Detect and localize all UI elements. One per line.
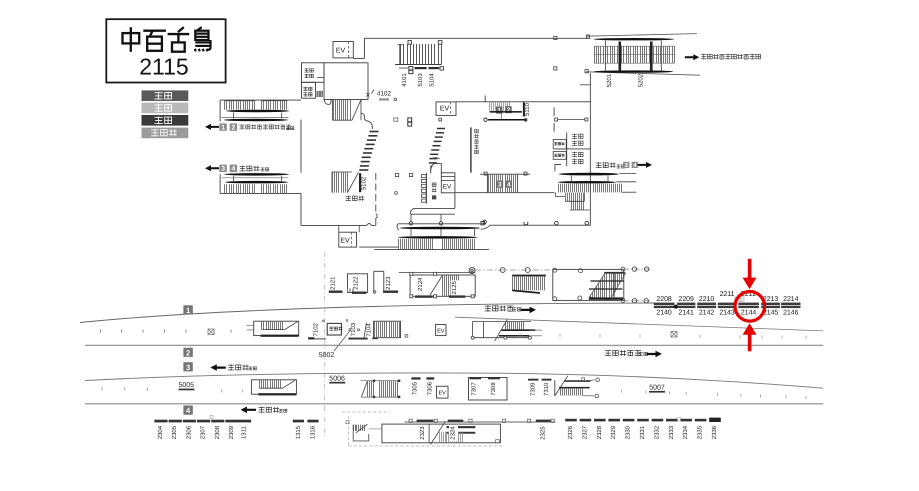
svg-text:5103: 5103 bbox=[417, 73, 424, 87]
boards 7309 7310 bbox=[528, 379, 539, 381]
west office wall dashed bbox=[375, 173, 377, 214]
svg-text:2309: 2309 bbox=[228, 425, 235, 439]
wiggle passage line bbox=[361, 113, 373, 129]
accessible toilet boxes bbox=[553, 139, 566, 149]
svg-text:EV: EV bbox=[340, 238, 350, 245]
platform3 stair west bbox=[251, 380, 296, 394]
ticket gate block bbox=[316, 91, 325, 97]
pillar dots center bbox=[394, 98, 397, 101]
stair 5102 with lighted sign bbox=[331, 172, 333, 193]
svg-text:EV: EV bbox=[437, 329, 445, 335]
svg-text:1316: 1316 bbox=[309, 425, 316, 439]
svg-text:2329: 2329 bbox=[610, 425, 617, 439]
legend 普通 bbox=[142, 103, 189, 114]
station title box 中百舌鳥 2115 bbox=[106, 19, 225, 82]
svg-text:1: 1 bbox=[221, 125, 225, 132]
label 駅務室 west bbox=[346, 196, 352, 202]
svg-text:2122: 2122 bbox=[353, 276, 360, 290]
svg-text:5201: 5201 bbox=[606, 73, 613, 87]
svg-text:5110: 5110 bbox=[524, 102, 531, 116]
restroom 女子手洗 east bbox=[566, 133, 568, 167]
svg-text:2123: 2123 bbox=[385, 276, 392, 290]
svg-text:2209: 2209 bbox=[679, 296, 694, 303]
svg-text:2324: 2324 bbox=[450, 426, 457, 440]
svg-text:2121: 2121 bbox=[330, 276, 337, 290]
platform1 stair west bbox=[247, 325, 255, 327]
platform1 stair east bbox=[374, 321, 401, 338]
double square symbol bbox=[409, 67, 413, 70]
svg-text:EV: EV bbox=[438, 391, 446, 397]
east escalator bank bbox=[558, 173, 619, 176]
east rooms partition bbox=[580, 84, 590, 86]
svg-text:7308: 7308 bbox=[490, 382, 497, 396]
platform3 stair east bbox=[554, 380, 556, 396]
svg-text:2308: 2308 bbox=[214, 425, 221, 439]
concourse wall west bbox=[300, 120, 302, 173]
svg-text:3: 3 bbox=[186, 363, 190, 372]
svg-text:2214: 2214 bbox=[783, 296, 798, 303]
svg-text:2144: 2144 bbox=[741, 310, 756, 317]
svg-text:2325: 2325 bbox=[540, 426, 547, 440]
svg-text:2307: 2307 bbox=[200, 425, 207, 439]
office 駅務室 center with EV bbox=[431, 158, 440, 160]
ad boards 2208-2214 / 2140-2146 bbox=[654, 303, 675, 305]
label ← なんば方面 row3 bbox=[210, 364, 226, 371]
main north stair 4101/5103/5104 bbox=[398, 44, 404, 46]
dark boards on rail bbox=[417, 420, 434, 422]
svg-text:2330: 2330 bbox=[625, 425, 632, 439]
svg-text:2208: 2208 bbox=[656, 296, 671, 303]
map symbol platform1 left bbox=[208, 329, 214, 335]
svg-text:3: 3 bbox=[221, 166, 225, 173]
platform 2 badge bbox=[183, 348, 192, 357]
legend 駅名板 bbox=[142, 128, 189, 139]
stair below NW room bbox=[332, 100, 334, 121]
elevator EV east-center bbox=[436, 102, 456, 116]
svg-text:2210: 2210 bbox=[699, 296, 714, 303]
svg-text:2333: 2333 bbox=[668, 425, 675, 439]
platform 1 edge curve bbox=[80, 303, 654, 323]
grand stair concourse south bbox=[398, 223, 486, 225]
svg-text:4: 4 bbox=[507, 182, 511, 189]
svg-text:EV: EV bbox=[440, 106, 450, 113]
platform 1 south edge slant bbox=[455, 317, 823, 331]
svg-text:2125: 2125 bbox=[451, 280, 458, 294]
svg-text:1: 1 bbox=[497, 107, 501, 114]
svg-text:7307: 7307 bbox=[471, 382, 478, 396]
svg-text:2336: 2336 bbox=[711, 425, 718, 439]
svg-text:2: 2 bbox=[507, 107, 511, 114]
hall line south-center bbox=[455, 192, 555, 194]
svg-text:2140: 2140 bbox=[656, 310, 671, 317]
svg-text:4102: 4102 bbox=[377, 90, 392, 97]
svg-text:4: 4 bbox=[232, 166, 236, 173]
label なんば方面 3 4 → bbox=[596, 162, 602, 168]
svg-text:4101: 4101 bbox=[401, 73, 408, 87]
svg-text:5202: 5202 bbox=[637, 73, 644, 87]
svg-text:5102: 5102 bbox=[361, 176, 368, 190]
board 5103 bbox=[415, 67, 427, 69]
svg-text:7104: 7104 bbox=[366, 323, 373, 337]
booth 2122 bbox=[348, 274, 368, 293]
dash-dot elevator shaft line bbox=[324, 252, 326, 437]
restroom 女子手洗 northwest bbox=[302, 63, 325, 83]
svg-text:1311: 1311 bbox=[241, 425, 248, 439]
dash-dot connectors east bbox=[624, 268, 650, 270]
sign 4102 bbox=[367, 90, 375, 97]
concourse north wall bbox=[353, 57, 364, 59]
escalator ramp down to platform 1 bbox=[512, 275, 546, 277]
svg-text:EV: EV bbox=[443, 183, 452, 190]
svg-text:1315: 1315 bbox=[295, 425, 302, 439]
platform1 east structure bbox=[472, 321, 531, 323]
svg-text:2334: 2334 bbox=[682, 425, 689, 439]
platform 1 furniture ticks bbox=[100, 330, 102, 333]
platform3 ticks east bbox=[621, 390, 623, 393]
board 4101 plain bbox=[399, 67, 408, 69]
concourse east wall bbox=[589, 73, 591, 225]
svg-text:2328: 2328 bbox=[596, 425, 603, 439]
platform 1 badge bbox=[183, 305, 192, 314]
dashed enclosure under platform bbox=[342, 411, 390, 413]
svg-text:5002: 5002 bbox=[319, 352, 335, 359]
waiting room 待合室 bbox=[327, 323, 341, 335]
label ← 1 2 泉北高速線、高野山方面 bbox=[205, 124, 219, 130]
board 5104 bbox=[429, 67, 440, 69]
tiny mark between 2333 2334 bbox=[678, 418, 681, 421]
office label third glyph bbox=[432, 195, 436, 199]
stair enclosure east bbox=[553, 269, 624, 300]
label 高野山方面 → bbox=[485, 305, 491, 311]
boards 7307 7308 box bbox=[469, 378, 508, 401]
svg-text:2115: 2115 bbox=[139, 54, 188, 80]
svg-text:2331: 2331 bbox=[639, 425, 646, 439]
restroom 男子手洗 northwest bbox=[302, 82, 316, 98]
legend 電照 bbox=[142, 115, 189, 126]
long rail line with posts bbox=[405, 421, 556, 423]
stair box 2124/2125 bbox=[399, 272, 475, 274]
svg-text:2305: 2305 bbox=[171, 425, 178, 439]
svg-text:2211: 2211 bbox=[720, 291, 735, 298]
svg-text:7310: 7310 bbox=[543, 382, 550, 396]
red arrow down bbox=[743, 259, 757, 289]
walkway to subway Midosuji line bbox=[586, 34, 697, 37]
red highlight circle 2144 bbox=[735, 292, 765, 322]
svg-text:2: 2 bbox=[232, 125, 236, 132]
small stair SW bbox=[354, 425, 365, 431]
svg-text:3: 3 bbox=[498, 182, 502, 189]
boards 2304-1311 row bbox=[154, 420, 167, 423]
svg-text:EV: EV bbox=[336, 48, 346, 55]
platform3 escalator pair center bbox=[360, 380, 400, 382]
platform 3 badge bbox=[183, 362, 192, 371]
track line 2 bbox=[85, 344, 823, 346]
label 5002 with leader bbox=[334, 330, 350, 351]
boards 7305 7306 + EV bbox=[411, 377, 420, 379]
stair below east bank bbox=[566, 193, 584, 202]
svg-text:2124: 2124 bbox=[417, 277, 424, 291]
svg-text:2: 2 bbox=[186, 348, 190, 357]
svg-text:5007: 5007 bbox=[649, 385, 665, 392]
label ← なんば方面 row4 bbox=[241, 407, 257, 414]
svg-text:2323: 2323 bbox=[419, 426, 426, 440]
boards 2326-2336 row bbox=[565, 419, 577, 422]
west escalator bank lower (なんば direction) bbox=[224, 173, 290, 176]
passage box bbox=[373, 271, 375, 292]
svg-text:7305: 7305 bbox=[412, 381, 419, 395]
track line 4 bbox=[85, 403, 823, 405]
dashed escalator route NW bbox=[370, 131, 379, 133]
south wall east with pillars bbox=[490, 224, 591, 226]
platform3 ticks west bbox=[101, 387, 103, 390]
room below office bbox=[454, 193, 456, 209]
platform 4 badge bbox=[183, 406, 192, 415]
stair to platform 3·4 bbox=[484, 172, 487, 175]
svg-text:2142: 2142 bbox=[699, 310, 714, 317]
under-platform room 2323/2324 bbox=[382, 424, 501, 443]
label ← 3 4 なんば方面 bbox=[205, 165, 219, 171]
svg-text:7309: 7309 bbox=[530, 382, 537, 396]
dash-dot line upper bbox=[475, 269, 554, 271]
station room northwest bbox=[324, 63, 368, 100]
destination display 行先表示器 bbox=[470, 127, 472, 172]
stair to platform 1·2 with sign 5110 bbox=[456, 101, 590, 103]
svg-text:2304: 2304 bbox=[157, 425, 164, 439]
svg-text:7306: 7306 bbox=[427, 381, 434, 395]
legend 建植 bbox=[142, 90, 189, 101]
svg-text:7103: 7103 bbox=[350, 322, 357, 336]
boards 1315 1316 bbox=[293, 420, 304, 423]
platform 3/4 edge curve bbox=[85, 373, 823, 388]
platform1 right ticks bbox=[519, 334, 521, 337]
concourse south wall west bbox=[301, 224, 367, 226]
label → 地下鉄御堂筋線連絡通 bbox=[685, 54, 700, 60]
west escalator bank upper (to 泉北高速線 platform) bbox=[220, 99, 301, 101]
svg-text:2141: 2141 bbox=[679, 310, 694, 317]
elevator EV northwest bbox=[333, 42, 353, 58]
svg-text:5006: 5006 bbox=[329, 375, 345, 382]
svg-text:5005: 5005 bbox=[179, 382, 195, 389]
svg-text:2326: 2326 bbox=[567, 425, 574, 439]
dashed escalator route center bbox=[437, 128, 445, 130]
small vent box under 2211 bbox=[735, 297, 744, 301]
pillar squares NE bbox=[554, 36, 557, 39]
svg-text:7102: 7102 bbox=[313, 322, 320, 336]
svg-text:2332: 2332 bbox=[653, 425, 660, 439]
restroom 男子手洗 east bbox=[556, 148, 591, 150]
svg-text:2327: 2327 bbox=[581, 425, 588, 439]
svg-text:2306: 2306 bbox=[185, 425, 192, 439]
red arrow up bbox=[743, 323, 757, 351]
svg-text:5104: 5104 bbox=[429, 73, 436, 87]
elevator EV southwest bbox=[338, 225, 340, 232]
svg-text:2335: 2335 bbox=[697, 425, 704, 439]
svg-text:2143: 2143 bbox=[719, 310, 734, 317]
elevator EV platform1 bbox=[436, 325, 446, 336]
tiny mark above 2308 bbox=[210, 416, 213, 419]
svg-text:2146: 2146 bbox=[783, 310, 798, 317]
label 泉北高速線方面 → bbox=[605, 350, 611, 356]
ring pillar bbox=[469, 268, 475, 274]
